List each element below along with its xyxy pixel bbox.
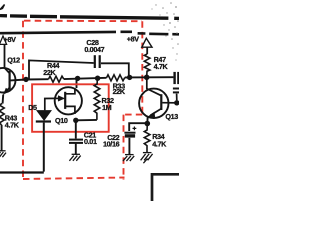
junction dot (Q13 emitter node) (145, 121, 151, 127)
svg-text:4.7K: 4.7K (5, 120, 20, 129)
plus sign C22 (133, 127, 137, 131)
wire: Q12 emitter down to R43 (2, 95, 5, 104)
wire: R32 bottom to Q10 source node (76, 119, 97, 121)
wire: Q13 base to right edge (162, 102, 179, 104)
junction dot (C28 right node) (127, 75, 132, 80)
wire: emitter node left to C22 (129, 123, 147, 131)
wire: Q12 base to node (11, 79, 27, 82)
transistor Q12 (0, 67, 16, 94)
transistor Q13 (139, 80, 168, 118)
ground (C21) (69, 154, 80, 161)
node rail (Q12 base / R44 / R33 line) (26, 78, 49, 80)
wire: lower right cap to base dot (176, 94, 178, 101)
red dashed region boundary: jog (124, 114, 143, 116)
svg-text:D5: D5 (28, 103, 37, 112)
resistor R34 (144, 126, 150, 152)
svg-text:+8V: +8V (127, 35, 139, 44)
+8V supply triangle (left) (0, 36, 7, 44)
+8V power rail (0, 32, 179, 35)
red component box (around D5/Q10) (32, 84, 109, 132)
svg-text:0.0047: 0.0047 (84, 45, 104, 54)
capacitor C21 (69, 140, 83, 143)
scan fold (white column) (169, 5, 173, 41)
svg-text:4.7K: 4.7K (154, 62, 169, 71)
junction dot (R47 / Q13 collector node) (144, 75, 150, 81)
wire: R43 to ground (1, 125, 3, 151)
junction dot (Q12 base node) (23, 77, 28, 82)
junction dot (base wire) (174, 100, 179, 105)
ground (R43) (0, 151, 6, 157)
wire: triangle to Q12 collector (4, 44, 6, 67)
red dashed region boundary: right edge (141, 21, 143, 114)
svg-text:1M: 1M (102, 103, 112, 112)
wire: drain node down to Q10 (76, 79, 78, 88)
JFET Q10 (55, 87, 82, 114)
wire: triangle to R47 (146, 47, 148, 54)
wire: R44 to R33 (64, 78, 107, 79)
diode D5 (36, 111, 51, 122)
svg-text:Q13: Q13 (165, 112, 178, 121)
capacitor C28 (95, 55, 100, 68)
ground (R34) (141, 153, 153, 164)
resistor R47 (144, 54, 150, 75)
wire: node up and over to C28 (29, 60, 94, 78)
bottom-right block corner (152, 174, 179, 201)
red dashed region boundary: inner right edge (123, 115, 125, 180)
scan speckles (151, 2, 178, 60)
capacitor C22 (electrolytic) (124, 133, 135, 136)
junction dot (Q10 drain node) (75, 76, 80, 81)
wire: Q10 gate left and down to D5 (45, 98, 56, 110)
wire: C22 to ground (128, 138, 130, 155)
svg-text:4.7K: 4.7K (152, 139, 167, 148)
resistor R32 (94, 78, 100, 120)
ground (C22) (123, 155, 134, 162)
resistor R44 (49, 76, 64, 82)
wire: bottom left return (0, 171, 44, 173)
svg-text:22K: 22K (43, 68, 56, 77)
wire: R33 to Q13 node (125, 76, 174, 78)
svg-text:Q10: Q10 (55, 116, 68, 125)
wire: C28 right to node rail (101, 63, 129, 77)
capacitor at right edge (vertical plates) (175, 72, 179, 84)
+8V supply triangle (right) (142, 38, 152, 47)
dashed section boundary line (top) (0, 16, 179, 19)
capacitor at right edge (horizontal plates) (173, 89, 179, 93)
red dashed region boundary: top edge (24, 20, 142, 23)
junction dot (Q10 source node) (73, 118, 78, 123)
wire: D5 cathode down (43, 123, 45, 172)
corner mark top-left (0, 5, 5, 10)
svg-text:Q12: Q12 (7, 56, 20, 65)
resistor R43 (cut at left edge) (0, 104, 4, 125)
junction dot (R32 top node) (95, 76, 100, 81)
wire: Q13 emitter down to node (146, 117, 148, 121)
svg-text:22K: 22K (113, 87, 126, 96)
svg-text:10/16: 10/16 (103, 140, 120, 149)
svg-text:0.01: 0.01 (84, 137, 97, 146)
red dashed region boundary: bottom edge (23, 178, 125, 180)
resistor R33 (107, 75, 125, 81)
wire: source node down to C21 (75, 120, 77, 138)
red dashed region boundary: left edge (22, 21, 24, 179)
wire: C21 to ground (75, 143, 77, 154)
